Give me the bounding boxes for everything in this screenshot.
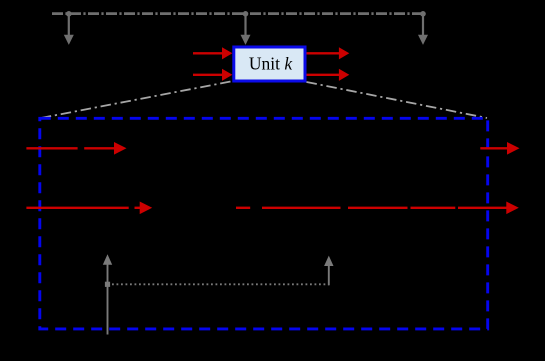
node: junction dot left — [66, 11, 72, 17]
red row1 output arrow (right, exits blue box) — [480, 142, 519, 155]
red output arrow d from Unit k (lower) — [307, 69, 350, 81]
block: big blue dashed boundary box — [40, 118, 488, 329]
wire: middle gray drop arrow into Unit k — [241, 14, 251, 45]
wire: right zoom-out diagonal dash-dot — [307, 82, 488, 118]
red row2 long dashed line with arrow (exits blue box) — [236, 202, 519, 215]
wire: left zoom-out diagonal dash-dot — [41, 82, 231, 119]
red row1 input arrow (left) — [26, 142, 126, 155]
node: junction dot middle — [243, 11, 249, 17]
red output arrow c from Unit k (upper) — [307, 47, 350, 59]
block: Unit k — [234, 47, 305, 81]
wire: top bus dash-dot line — [52, 12, 423, 15]
node: square junction marker on gray feed line — [105, 282, 110, 287]
wire: gray bottom feed vertical line with up arrow (left) — [103, 254, 112, 334]
wire: left gray drop arrow — [64, 14, 74, 45]
node: junction dot right — [420, 11, 426, 17]
red input arrow b into Unit k (lower) — [193, 69, 232, 81]
wire: right gray drop arrow — [418, 14, 428, 45]
red input arrow a into Unit k (upper) — [193, 47, 232, 59]
wire: gray up arrow (right end of dotted line) — [324, 256, 333, 286]
svg-text:Unit k: Unit k — [249, 54, 294, 74]
wire: gray dotted horizontal line — [108, 283, 330, 285]
red row2 input arrow (left) — [26, 202, 152, 215]
